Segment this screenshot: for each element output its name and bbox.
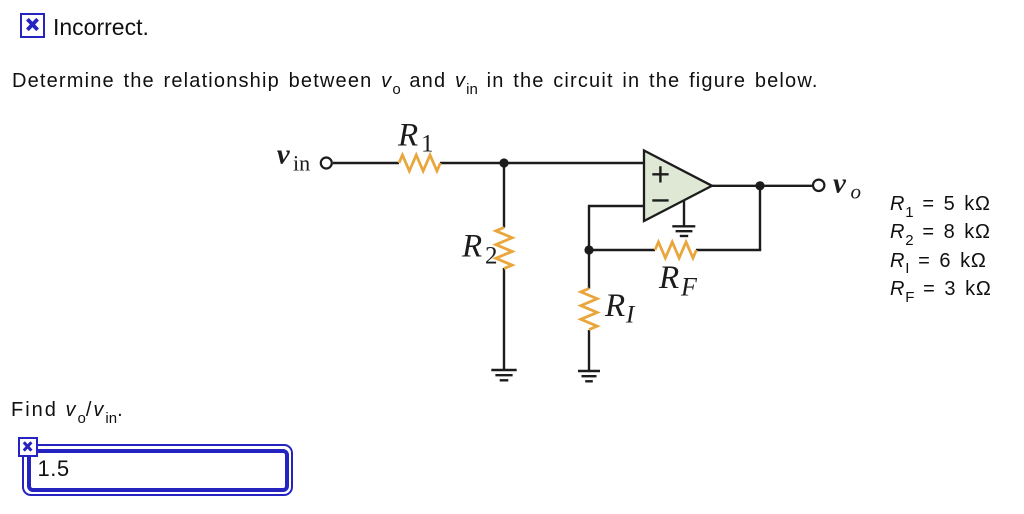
node A	[499, 158, 508, 167]
resistor R1	[399, 155, 440, 171]
incorrect mark icon	[20, 13, 45, 38]
svg-text:R: R	[604, 288, 625, 324]
wire op-amp reference stub	[683, 201, 685, 226]
svg-text:I: I	[625, 302, 636, 329]
svg-text:in: in	[293, 151, 310, 176]
svg-text:F: F	[680, 273, 698, 302]
wire feedback horizontal right of RF	[696, 249, 761, 251]
ground op-amp	[672, 226, 695, 236]
Incorrect. text	[53, 14, 149, 41]
ground RI	[578, 371, 600, 381]
resistor RI	[581, 289, 597, 330]
op-amp U1	[644, 151, 712, 222]
wire feedback horizontal left of RF	[589, 249, 655, 251]
wire node A to R2 top	[503, 163, 505, 228]
wire output	[712, 185, 813, 187]
svg-text:R: R	[461, 229, 482, 265]
wire RI bottom to ground	[588, 330, 590, 370]
svg-text:v: v	[277, 139, 291, 171]
node B output	[755, 181, 764, 190]
node C inverting	[584, 245, 593, 254]
find prompt	[11, 399, 125, 422]
terminal vo	[813, 180, 824, 191]
resistor RF	[655, 242, 696, 258]
component values list	[890, 190, 992, 304]
wire feedback vertical	[759, 186, 761, 250]
ground R2	[491, 370, 516, 380]
svg-text:o: o	[851, 180, 862, 204]
answer input	[27, 449, 288, 492]
answer incorrect icon	[18, 437, 38, 457]
svg-text:v: v	[833, 168, 847, 200]
wire input right segment to op-amp +	[440, 162, 644, 164]
wire node C to RI top	[588, 250, 590, 289]
svg-text:2: 2	[485, 242, 498, 269]
wire R2 bottom to ground	[503, 268, 505, 369]
wire inverting input to node C	[589, 206, 644, 250]
answer box outer ring	[22, 444, 293, 497]
answer text 1.5	[38, 456, 70, 482]
question text	[12, 70, 819, 93]
terminal vin	[321, 158, 332, 169]
svg-text:R: R	[658, 260, 679, 296]
resistor R2	[496, 228, 512, 269]
svg-text:1: 1	[421, 130, 434, 157]
wire input left segment	[333, 162, 399, 164]
svg-text:R: R	[397, 117, 418, 153]
